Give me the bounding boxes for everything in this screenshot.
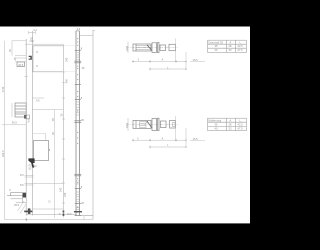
svg-text:292.5: 292.5 [1,150,5,157]
svg-text:24.3: 24.3 [125,45,129,51]
svg-text:2.4: 2.4 [77,27,81,31]
svg-text:15.5: 15.5 [193,58,199,62]
svg-text:245: 245 [65,57,69,62]
svg-text:36.5: 36.5 [12,121,18,125]
svg-text:8.5: 8.5 [20,183,24,187]
svg-text:8.5: 8.5 [20,173,24,177]
svg-text:42.5: 42.5 [238,122,244,126]
svg-text:A: A [162,58,164,62]
svg-text:Dornmaß 35: Dornmaß 35 [209,40,224,44]
svg-text:245: 245 [59,187,63,192]
svg-text:4.5: 4.5 [36,99,40,103]
svg-text:10.5: 10.5 [67,212,73,216]
svg-text:24.3: 24.3 [125,122,129,128]
svg-text:(30): (30) [30,39,35,43]
svg-text:47.5: 47.5 [238,48,244,52]
svg-text:42.5: 42.5 [238,44,244,48]
svg-text:35.5: 35.5 [14,203,20,207]
svg-text:345: 345 [65,79,69,84]
svg-text:A: A [230,40,232,44]
svg-text:A: A [162,136,164,140]
svg-text:A: A [230,118,232,122]
svg-text:1744: 1744 [1,86,5,92]
svg-text:245: 245 [63,192,67,197]
svg-text:3.4: 3.4 [33,28,37,32]
svg-text:47.5: 47.5 [238,127,244,131]
svg-text:Entfernung: Entfernung [209,118,222,122]
svg-text:15.5: 15.5 [193,137,199,141]
svg-text:20.5: 20.5 [18,63,24,67]
